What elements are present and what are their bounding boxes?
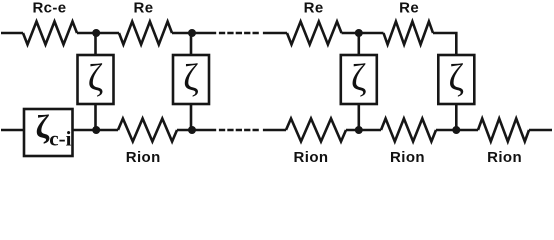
impedance box U2 <box>173 55 209 104</box>
wire top node1 segment <box>77 32 119 35</box>
resistor Rion (bottom 3rd) <box>381 119 436 142</box>
svg-text:Rc-e: Rc-e <box>32 0 66 17</box>
node top3 junction dot <box>355 29 363 37</box>
wire branch3 upper <box>357 33 360 55</box>
svg-text:Rion: Rion <box>294 149 329 164</box>
resistor Rc-e <box>23 22 77 45</box>
wire top node3 segment <box>342 32 384 35</box>
svg-text:ζ: ζ <box>351 57 367 99</box>
wire branch1 lower <box>94 104 97 130</box>
wire top-right corner down to box4 <box>433 33 456 55</box>
impedance box U4 <box>438 55 474 104</box>
wire branch2 upper <box>190 33 193 55</box>
resistor Re (top 3rd) <box>287 22 342 45</box>
svg-text:Rion: Rion <box>126 149 161 164</box>
resistor Re (top 2nd) <box>119 22 172 45</box>
wire bottom-right lead <box>529 129 552 132</box>
impedance box U1 <box>78 55 114 104</box>
node bottom2 junction dot <box>188 126 196 134</box>
wire bottom dashed continuation <box>219 129 259 132</box>
wire bottom node3 segment <box>346 129 381 132</box>
svg-text:ζc-i: ζc-i <box>36 110 72 151</box>
wire bottom node2 segment <box>177 129 216 132</box>
node bottom3 junction dot <box>355 126 363 134</box>
svg-text:Re: Re <box>399 0 419 17</box>
impedance box U5 (zeta c-i) <box>24 109 73 156</box>
wire bottom after dashes <box>263 129 286 132</box>
impedance box U3 <box>341 55 377 104</box>
resistor Rion (bottom 4th) <box>478 119 529 142</box>
wire top dashed continuation <box>219 32 259 35</box>
svg-text:Re: Re <box>304 0 324 17</box>
resistor Rion (bottom 1st) <box>118 119 177 142</box>
svg-text:ζ: ζ <box>88 57 104 99</box>
wire branch1 upper <box>94 33 97 55</box>
node bottom4 junction dot <box>452 126 460 134</box>
wire branch2 lower <box>190 104 193 130</box>
svg-text:Re: Re <box>134 0 154 17</box>
wire branch3 lower <box>357 104 360 130</box>
wire top node2 segment <box>172 32 216 35</box>
svg-text:ζ: ζ <box>448 57 464 99</box>
wire top-left lead <box>1 32 23 35</box>
node top2 junction dot <box>188 29 196 37</box>
resistor Rion (bottom 2nd) <box>286 119 346 142</box>
svg-text:ζ: ζ <box>183 57 199 99</box>
wire branch4 lower <box>455 104 458 130</box>
wire bottom-left lead <box>1 129 24 132</box>
wire top after dashes <box>263 32 287 35</box>
node top1 junction dot <box>92 29 100 37</box>
wire box5 to node1 <box>73 129 119 132</box>
svg-text:Rion: Rion <box>390 149 425 164</box>
node bottom1 junction dot <box>92 126 100 134</box>
svg-text:Rion: Rion <box>487 149 522 164</box>
resistor Re (top 4th) <box>384 22 434 45</box>
wire bottom node4 segment <box>436 129 478 132</box>
